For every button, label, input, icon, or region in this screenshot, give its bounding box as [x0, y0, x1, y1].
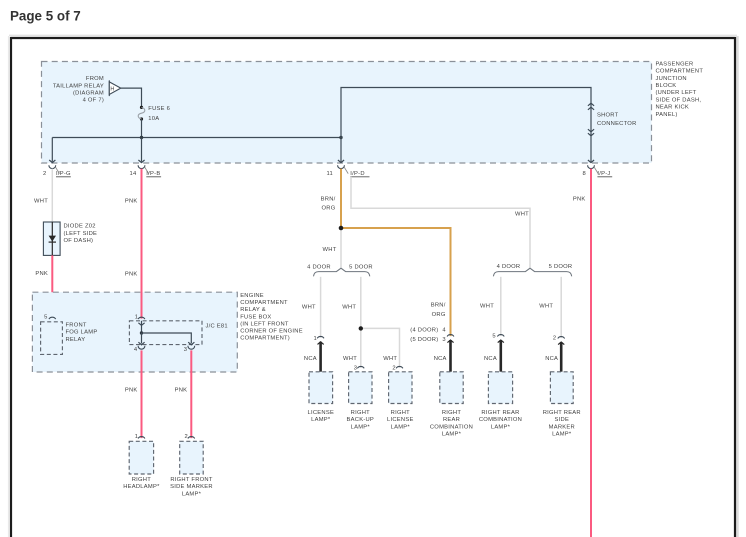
svg-text:RELAY: RELAY [66, 337, 86, 343]
svg-text:COMPARTMENT: COMPARTMENT [656, 69, 704, 75]
taillamp relay feed symbol (triangle H) [109, 80, 121, 96]
svg-text:LAMP*: LAMP* [391, 424, 411, 430]
svg-text:(LEFT SIDE: (LEFT SIDE [64, 231, 98, 237]
wire riser from bus to short connector branch [341, 88, 594, 163]
svg-text:COMBINATION: COMBINATION [430, 424, 473, 430]
wire PNK pin 8 down off page [590, 169, 592, 537]
svg-text:DIODE Z02: DIODE Z02 [64, 224, 96, 230]
label PNK column 2 upper [125, 199, 138, 205]
diode Z02 [43, 222, 60, 255]
passenger compartment junction block (dashed blue box) [42, 62, 652, 164]
svg-text:OF DASH): OF DASH) [64, 238, 94, 244]
svg-text:WHT: WHT [539, 304, 553, 310]
svg-text:MARKER: MARKER [549, 424, 575, 430]
svg-text:RIGHT: RIGHT [391, 410, 410, 416]
svg-text:WHT: WHT [343, 356, 357, 362]
J/C E81 label [206, 324, 228, 330]
svg-text:PANEL): PANEL) [656, 112, 678, 118]
svg-text:JUNCTION: JUNCTION [656, 76, 687, 82]
svg-text:PNK: PNK [573, 197, 586, 203]
svg-text:4 DOOR: 4 DOOR [497, 264, 521, 270]
right rear combination lamp 2 label [479, 410, 522, 430]
svg-text:PNK: PNK [35, 271, 48, 277]
svg-text:2: 2 [43, 171, 46, 177]
svg-text:LICENSE: LICENSE [308, 410, 335, 416]
connector pin 2 of right license lamp [392, 365, 403, 371]
label WHT license lamp branch [302, 304, 316, 310]
svg-text:CONNECTOR: CONNECTOR [597, 121, 637, 127]
label NCA side marker lamp [545, 356, 558, 362]
svg-text:REAR: REAR [443, 417, 460, 423]
right rear side marker lamp [550, 372, 573, 404]
svg-text:BRN/: BRN/ [431, 303, 446, 309]
svg-text:WHT: WHT [342, 304, 356, 310]
svg-text:I/P-J: I/P-J [597, 171, 610, 177]
label PNK to headlamp [125, 388, 138, 394]
right back-up lamp label [347, 410, 375, 430]
label NCA combination lamp 2 [484, 356, 497, 362]
svg-text:LAMP*: LAMP* [182, 491, 202, 497]
engine compartment relay and fuse box label [240, 293, 303, 342]
right rear combination lamp [440, 372, 463, 404]
svg-text:RIGHT: RIGHT [132, 477, 151, 483]
svg-text:TAILLAMP RELAY: TAILLAMP RELAY [53, 83, 104, 89]
wire BRN/ORG splice to right rear combination lamp [341, 228, 451, 336]
svg-text:2: 2 [185, 434, 188, 440]
wire pin 11 drop [338, 138, 344, 163]
junction dot at pin 11 column [339, 136, 342, 139]
svg-text:2: 2 [553, 336, 556, 342]
diode Z02 label [64, 224, 98, 244]
svg-text:BLOCK: BLOCK [656, 83, 677, 89]
svg-text:WHT: WHT [480, 304, 494, 310]
label 4 DOOR right brace [497, 264, 521, 270]
svg-text:LAMP*: LAMP* [311, 417, 331, 423]
svg-text:J/C E81: J/C E81 [206, 324, 228, 330]
right rear combination lamp label [430, 410, 473, 438]
wire NCA to right rear combination lamp [447, 340, 453, 372]
svg-text:COMBINATION: COMBINATION [479, 417, 522, 423]
svg-text:HEADLAMP*: HEADLAMP* [123, 484, 160, 490]
internal wire splice to pin 3 branch [142, 333, 195, 345]
connector pin 8 I/P-J [583, 165, 613, 177]
label PNK to side marker lamp [175, 388, 188, 394]
wire WHT splice to left 4/5 door brace [340, 228, 342, 268]
passenger compartment junction block label [656, 61, 704, 117]
svg-text:(IN LEFT FRONT: (IN LEFT FRONT [240, 321, 289, 327]
svg-text:BACK-UP: BACK-UP [347, 417, 375, 423]
svg-text:NCA: NCA [434, 356, 447, 362]
wire from fuse to bus [141, 119, 143, 138]
svg-text:WHT: WHT [383, 356, 397, 362]
label WHT column 1 [34, 199, 48, 205]
connector pin 5 of right rear combination lamp 2 [492, 334, 504, 340]
svg-text:RELAY &: RELAY & [240, 307, 266, 313]
label WHT near corner [515, 212, 529, 218]
svg-text:LAMP*: LAMP* [491, 424, 511, 430]
svg-text:FUSE 6: FUSE 6 [148, 106, 170, 112]
wire WHT splice to right back-up lamp [360, 328, 362, 368]
svg-text:2: 2 [392, 365, 395, 371]
svg-text:Page 5 of 7: Page 5 of 7 [10, 8, 81, 23]
svg-text:5 DOOR: 5 DOOR [549, 264, 573, 270]
svg-text:5: 5 [44, 315, 47, 321]
svg-text:I/P-G: I/P-G [56, 171, 71, 177]
wire WHT splice to right license lamp [361, 328, 400, 368]
svg-text:CORNER OF ENGINE: CORNER OF ENGINE [240, 329, 303, 335]
splice dot inside J/C E81 [140, 331, 143, 334]
svg-text:COMPARTMENT: COMPARTMENT [240, 300, 288, 306]
wire WHT brace to right rear side marker lamp [560, 277, 562, 338]
svg-text:NCA: NCA [545, 356, 558, 362]
connector pin 11 I/P-D [326, 165, 369, 177]
right front side marker lamp label [170, 477, 213, 497]
front fog lamp relay label [66, 322, 98, 342]
connector pin 4 of J/C E81 [134, 346, 145, 353]
svg-text:NCA: NCA [484, 356, 497, 362]
from-taillamp-relay source label [53, 76, 104, 104]
svg-text:RIGHT REAR: RIGHT REAR [481, 410, 519, 416]
svg-text:1: 1 [135, 434, 138, 440]
svg-text:PASSENGER: PASSENGER [656, 61, 694, 67]
left 4 door / 5 door brace [314, 268, 370, 276]
svg-text:SIDE OF DASH,: SIDE OF DASH, [656, 97, 702, 103]
wire fuse column down to pin 14 [138, 138, 144, 163]
svg-text:5 DOOR: 5 DOOR [349, 265, 373, 271]
svg-text:LAMP*: LAMP* [552, 432, 572, 438]
connector pin 5 of front fog lamp relay [44, 315, 56, 321]
svg-text:PNK: PNK [125, 272, 138, 278]
svg-text:SIDE: SIDE [555, 417, 570, 423]
connector pin 3 of right back-up lamp [354, 365, 364, 371]
svg-text:I/P-B: I/P-B [146, 171, 160, 177]
svg-text:ORG: ORG [322, 206, 336, 212]
svg-text:4 OF 7): 4 OF 7) [83, 98, 104, 104]
label BRN/ORG at combination lamp [431, 303, 446, 318]
svg-text:WHT: WHT [515, 212, 529, 218]
svg-text:(DIAGRAM: (DIAGRAM [73, 91, 104, 97]
junction dot at fuse column [140, 136, 143, 139]
short connector label [597, 112, 637, 126]
label WHT to right license lamp [383, 356, 397, 362]
short connector symbol [588, 103, 594, 136]
wire from triangle H to fuse 6 [121, 88, 142, 106]
svg-text:COMPARTMENT): COMPARTMENT) [240, 336, 290, 342]
svg-text:3: 3 [354, 365, 357, 371]
label PNK column 2 lower [125, 272, 138, 278]
svg-text:8: 8 [583, 171, 586, 177]
right license lamp [389, 372, 412, 404]
svg-text:LAMP*: LAMP* [351, 424, 371, 430]
label 5 DOOR left brace [349, 265, 373, 271]
svg-text:3: 3 [442, 337, 445, 343]
svg-text:ORG: ORG [432, 312, 446, 318]
connector pin 1 of J/C E81 [135, 314, 145, 320]
connector pin 2 of right front side marker lamp [185, 434, 195, 440]
wire WHT from I/P-D label to right 4/5 door brace [351, 177, 530, 268]
bus wire inside junction block [52, 137, 341, 139]
right license lamp label [387, 410, 414, 430]
license lamp label [308, 410, 335, 423]
label WHT combination lamp 2 branch [480, 304, 494, 310]
wire PNK J/C pin 4 to right headlamp [141, 350, 143, 438]
label 5 DOOR right brace [549, 264, 573, 270]
splice dot BRN/ORG to WHT [339, 226, 344, 231]
svg-text:RIGHT REAR: RIGHT REAR [543, 410, 581, 416]
splice dot back-up branch [359, 326, 363, 330]
svg-text:SIDE MARKER: SIDE MARKER [170, 484, 213, 490]
wire WHT pin 2 to diode [51, 169, 53, 222]
internal wire J/C E81 pin 1 to splice [138, 321, 144, 333]
label PNK column 1 [35, 271, 48, 277]
front fog lamp relay [41, 322, 63, 355]
svg-text:WHT: WHT [302, 304, 316, 310]
svg-text:I/P-D: I/P-D [350, 171, 364, 177]
right headlamp [129, 441, 153, 474]
svg-text:RIGHT: RIGHT [442, 410, 461, 416]
label PNK column 4 [573, 197, 586, 203]
svg-text:RIGHT FRONT: RIGHT FRONT [170, 477, 212, 483]
connector pin 14 I/P-B [130, 165, 162, 177]
svg-text:SHORT: SHORT [597, 112, 619, 118]
wire PNK diode to front fog lamp relay [51, 255, 53, 318]
right rear side marker lamp label [543, 410, 581, 438]
wire PNK pin 14 to J/C E81 [141, 169, 143, 319]
label NCA license lamp [304, 356, 317, 362]
right headlamp label [123, 477, 160, 490]
internal wire splice to pin 4 [138, 333, 144, 345]
svg-text:11: 11 [326, 171, 333, 177]
right rear combination lamp 2 [488, 372, 512, 404]
label WHT back-up branch [342, 304, 356, 310]
svg-text:4: 4 [134, 347, 138, 353]
wire WHT brace to back-up lamp splice [360, 277, 362, 329]
svg-text:LAMP*: LAMP* [442, 432, 462, 438]
label WHT side marker branch [539, 304, 553, 310]
wire WHT brace to right rear combination lamp 2 [500, 277, 502, 336]
connector pin 2 I/P-G [43, 165, 71, 177]
fuse 6 10A [138, 106, 170, 122]
label 4 DOOR left brace [307, 265, 331, 271]
connector pin 4/3 of right rear combination lamp [410, 327, 454, 343]
wire NCA to right rear combination lamp 2 [498, 340, 504, 372]
svg-text:5: 5 [492, 334, 495, 340]
connector pin 3 of J/C E81 [184, 346, 195, 353]
svg-text:14: 14 [130, 171, 137, 177]
svg-text:(4 DOOR): (4 DOOR) [410, 327, 438, 333]
svg-text:WHT: WHT [34, 199, 48, 205]
engine compartment relay and fuse box (dashed blue box) [32, 292, 237, 372]
svg-text:(5 DOOR): (5 DOOR) [410, 337, 438, 343]
svg-text:PNK: PNK [125, 199, 138, 205]
svg-text:3: 3 [184, 347, 187, 353]
connector pin 1 of license lamp [314, 336, 324, 342]
connector pin 2 of right rear side marker lamp [553, 336, 565, 342]
label NCA combination lamp [434, 356, 447, 362]
wire NCA to right rear side marker lamp [558, 342, 564, 372]
svg-text:LICENSE: LICENSE [387, 417, 414, 423]
svg-text:PNK: PNK [125, 388, 138, 394]
svg-text:BRN/: BRN/ [321, 196, 336, 202]
svg-text:(UNDER LEFT: (UNDER LEFT [656, 90, 697, 96]
svg-text:FROM: FROM [86, 76, 104, 82]
label WHT below splice [323, 247, 337, 253]
junction connector J/C E81 box [129, 321, 202, 345]
svg-text:ENGINE: ENGINE [240, 293, 264, 299]
wire PNK J/C pin 3 to right front side marker lamp [190, 350, 192, 438]
label WHT to back-up lamp [343, 356, 357, 362]
svg-text:NCA: NCA [304, 356, 317, 362]
svg-text:FOG LAMP: FOG LAMP [66, 330, 98, 336]
svg-text:1: 1 [135, 314, 138, 320]
wire BRN/ORG from pin 11 to splice [340, 169, 342, 228]
license lamp [309, 372, 333, 404]
svg-text:PNK: PNK [175, 388, 188, 394]
connector pin 1 of right headlamp [135, 434, 145, 440]
right back-up lamp [349, 372, 372, 404]
svg-text:4 DOOR: 4 DOOR [307, 265, 331, 271]
svg-text:H: H [110, 87, 114, 93]
label BRN/ORG column 3 [321, 196, 336, 211]
svg-text:10A: 10A [148, 116, 159, 122]
page title [10, 8, 81, 23]
right 4 door / 5 door brace [493, 268, 571, 276]
wire NCA to license lamp [318, 342, 324, 372]
svg-text:1: 1 [314, 336, 317, 342]
svg-text:NEAR KICK: NEAR KICK [656, 105, 690, 111]
wire WHT brace to license lamp connector [320, 277, 322, 338]
svg-text:FUSE BOX: FUSE BOX [240, 314, 271, 320]
wire bus down to pin 2 [49, 138, 55, 163]
right front side marker lamp [180, 441, 204, 474]
svg-text:4: 4 [442, 327, 446, 333]
svg-text:RIGHT: RIGHT [351, 410, 370, 416]
svg-text:WHT: WHT [323, 247, 337, 253]
svg-text:FRONT: FRONT [66, 322, 87, 328]
